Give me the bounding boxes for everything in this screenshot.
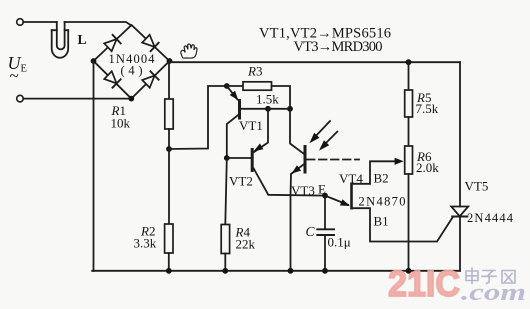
wire R4 bottom to rail: [224, 254, 226, 271]
wire bottom input to bridge bottom vertex: [23, 98, 131, 100]
terminal top input: [17, 19, 24, 26]
svg-text:~: ~: [10, 66, 19, 85]
node VT2 base: [224, 155, 230, 161]
svg-text:VT4: VT4: [339, 171, 363, 186]
wire left vertical (bridge left vertex to bottom rail): [92, 61, 93, 271]
node bridge bottom vertex: [128, 96, 134, 102]
label VT3 E: [291, 182, 326, 199]
watermark 21IC: [388, 263, 526, 306]
wire node to R3 left: [227, 85, 243, 87]
thyristor VT5: [451, 207, 468, 271]
label R2 3.3k: [134, 224, 157, 251]
resistor R5: [405, 90, 413, 117]
svg-text:VT3→MRD300: VT3→MRD300: [294, 39, 383, 55]
svg-text:(4): (4): [121, 64, 143, 78]
svg-text:22k: 22k: [236, 237, 256, 252]
hand cursor: [181, 44, 197, 58]
node C rail: [322, 268, 328, 274]
terminal bottom input: [17, 95, 24, 102]
wire node to VT1 emitter node (up and over): [169, 86, 227, 149]
label 1N4004: [109, 52, 156, 78]
lamp L: [52, 22, 68, 58]
svg-text:R3: R3: [247, 64, 262, 79]
svg-text:3.3k: 3.3k: [134, 236, 157, 251]
wire VT1 base rail to VT3 collector: [268, 108, 290, 110]
label UE: [8, 53, 27, 85]
resistor R6 potentiometer: [405, 146, 413, 174]
transistor VT3 phototransistor: [290, 109, 305, 271]
diode D4 bottom-right: [142, 71, 159, 88]
wire R2 bottom to rail: [168, 253, 170, 271]
svg-text:B1: B1: [374, 214, 389, 229]
svg-text:C: C: [306, 224, 316, 239]
svg-text:21IC: 21IC: [388, 263, 460, 304]
svg-text:VT5: VT5: [465, 179, 489, 194]
wire R2 top: [168, 149, 170, 224]
wire top input to lamp: [23, 21, 57, 23]
transistor VT1: [227, 86, 268, 158]
node bridge right vertex: [167, 58, 173, 64]
resistor R4: [221, 225, 229, 254]
wire right vertical to VT5 anode: [459, 62, 461, 206]
wire top rail (bridge right vertex to right corner): [170, 61, 461, 62]
wire R5 to R6: [408, 117, 410, 146]
svg-text:L: L: [78, 32, 87, 47]
wire lamp to bridge top vertex: [65, 22, 132, 26]
wire R1 bottom to node: [168, 129, 170, 149]
svg-text:1.5k: 1.5k: [256, 92, 279, 107]
diode D2 top-right: [142, 34, 159, 51]
resistor R2: [165, 224, 173, 253]
svg-text:VT3: VT3: [291, 183, 315, 198]
wire capacitor to rail: [324, 235, 326, 271]
transistor VT4 UJT: [325, 158, 453, 242]
node R3 right / VT3 collector: [287, 106, 293, 112]
node R6 rail: [406, 268, 412, 274]
svg-text:2.0k: 2.0k: [416, 160, 439, 175]
label R1 10k: [111, 103, 131, 131]
resistor R1: [165, 99, 173, 129]
node R5 top rail: [406, 59, 412, 65]
wire R3 right to VT1 base rail: [272, 86, 291, 109]
svg-text:2N4444: 2N4444: [467, 211, 514, 225]
svg-text:E: E: [21, 64, 27, 75]
svg-text:.com: .com: [461, 280, 526, 306]
svg-text:VT1: VT1: [239, 118, 263, 133]
wire bridge right vertex down to R1: [168, 61, 170, 99]
node VT3 emitter rail: [288, 268, 294, 274]
light arrow 1: [309, 121, 330, 143]
resistor R3: [243, 82, 272, 90]
watermark chinese dianziwang: [466, 268, 515, 284]
svg-text:B2: B2: [374, 171, 389, 186]
transistor VT2: [227, 109, 325, 196]
label R5 7.5k: [416, 90, 439, 116]
node R4 rail: [222, 268, 228, 274]
svg-text:2N4870: 2N4870: [359, 195, 406, 209]
capacitor C: [317, 229, 334, 235]
label R4 22k: [235, 225, 256, 252]
node VT1 emitter / R3 left: [224, 83, 230, 89]
wire VT2 base down to R4: [225, 158, 227, 225]
label R6 2.0k: [416, 149, 439, 175]
dashed base line VT3: [307, 159, 359, 161]
diode D1 top-left: [104, 35, 121, 52]
wire bottom rail: [92, 270, 460, 272]
bridge rectifier frame: [94, 25, 170, 99]
light arrow 2: [319, 132, 337, 151]
node R2 rail: [166, 268, 172, 274]
svg-text:VT2: VT2: [229, 174, 253, 189]
svg-text:0.1μ: 0.1μ: [328, 235, 351, 250]
node VT1 base / VT2 emitter: [265, 106, 271, 112]
svg-text:7.5k: 7.5k: [416, 101, 439, 116]
node bridge left vertex: [91, 58, 97, 64]
node R1-R2 junction: [166, 146, 172, 152]
wire rail to R5: [408, 62, 410, 90]
svg-text:10k: 10k: [111, 116, 131, 131]
node C top / VT4 emitter junction: [322, 193, 328, 199]
label R3 1.5k: [247, 64, 279, 107]
wire R6 bottom to rail: [408, 174, 410, 271]
wire C node down to capacitor: [324, 196, 326, 229]
diode D3 bottom-left: [104, 71, 121, 88]
label C 0.1u: [306, 224, 351, 250]
